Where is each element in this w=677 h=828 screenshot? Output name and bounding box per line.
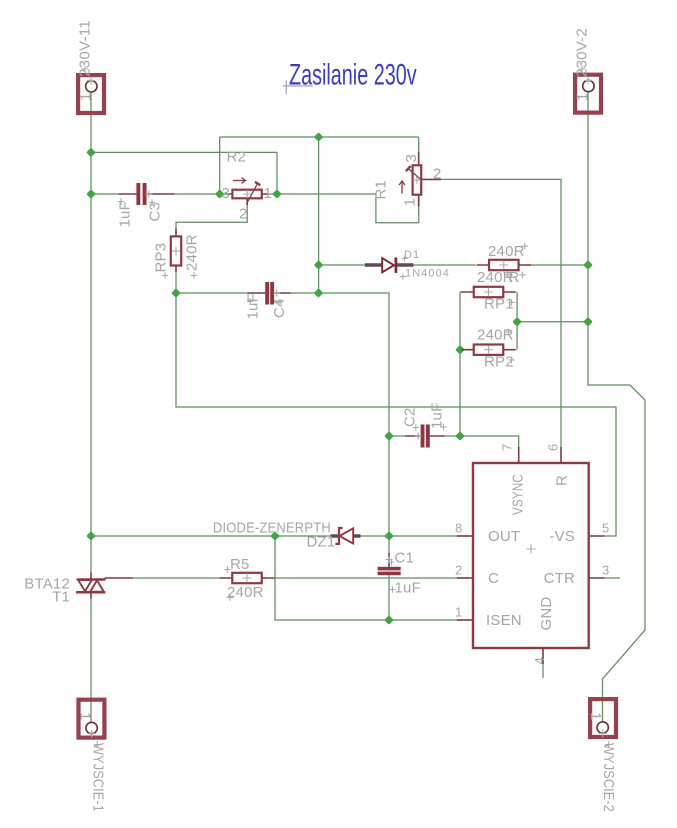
resistor R? 240R (D1 row): [477, 243, 532, 270]
wire wire C1 column below to ISEN row: [388, 575, 390, 620]
triac T1 BTA12: [24, 573, 133, 606]
wire wire RP1 left corner column: [459, 292, 461, 436]
resistor RP1 240R: [461, 269, 525, 313]
wire wire vertical drop R2 pin1 side: [276, 152, 278, 194]
svg-text:7: 7: [500, 444, 515, 451]
svg-text:ISEN: ISEN: [486, 612, 522, 629]
node C1 top / zener row: [384, 531, 394, 541]
svg-text:1: 1: [587, 712, 604, 721]
connector J3 WYJSCIE-1: [77, 700, 107, 812]
svg-text:2: 2: [239, 206, 248, 223]
wire wire C2 row right stub: [445, 435, 461, 437]
R1 adjust arrow: [399, 181, 405, 194]
svg-text:C1: C1: [395, 550, 415, 567]
R2 adjust arrow: [233, 178, 246, 184]
svg-text:4: 4: [532, 657, 547, 664]
wire wire RP3 bottom to C4 row junction: [175, 272, 177, 293]
node RP1-RP2 joint: [512, 317, 522, 327]
svg-text:WYJSCIE-1: WYJSCIE-1: [89, 743, 106, 812]
wire wire from C2 right junction to IC pin7: [460, 436, 519, 447]
wire wire IC pin5 up and along top row to left: [176, 293, 616, 536]
U1 pin 7 VSYNC stub: [518, 447, 520, 463]
U1 center origin cross: [527, 545, 536, 554]
node RP row / 230V-2 rail: [583, 317, 593, 327]
wire wire vertical drop to R2 pin3: [219, 137, 221, 194]
resistor R5 240R: [220, 556, 275, 601]
U1 pin 3 CTR stub: [589, 577, 605, 579]
op-amp / phase-control IC U1: [455, 444, 609, 665]
svg-text:C2: C2: [402, 407, 419, 427]
svg-text:Zasilanie 230v: Zasilanie 230v: [289, 59, 417, 92]
diode D1 1N4004: [365, 249, 450, 280]
svg-text:R: R: [509, 269, 520, 286]
wire wire 230V-2 rail down then jog right and down to WYJSCIE-2: [588, 92, 645, 722]
svg-text:1N4004: 1N4004: [405, 268, 450, 280]
wire wire IC pin3 stub: [605, 577, 620, 579]
svg-text:1uF: 1uF: [117, 201, 134, 227]
svg-text:1uF: 1uF: [245, 293, 262, 319]
node C4 row right: [314, 288, 324, 298]
svg-text:3: 3: [602, 563, 609, 578]
U1 pin number 7: [500, 444, 515, 451]
wire wire D1 row middle segment: [413, 264, 475, 266]
svg-text:1: 1: [455, 605, 462, 620]
svg-text:1: 1: [78, 92, 95, 101]
connector J1 230V-11: [77, 20, 105, 113]
svg-text:DZ1: DZ1: [307, 534, 336, 551]
svg-text:240R: 240R: [227, 584, 264, 601]
svg-text:OUT: OUT: [488, 528, 520, 545]
R1 name label: [373, 180, 390, 200]
title text "Zasilanie 230v": [289, 59, 417, 92]
resistor RP3 240R: [153, 229, 201, 279]
wire wire C3 row right segment: [174, 193, 227, 195]
svg-text:D1: D1: [404, 249, 420, 261]
resistor RP2 240R: [461, 327, 516, 371]
U1 pin 1 ISEN stub: [457, 619, 473, 621]
wire wire from zener row down to ISEN row: [275, 536, 457, 620]
U1 pin number 4: [532, 657, 547, 664]
R2 wiper slot: [247, 184, 258, 205]
wire wire C2 row left stub: [389, 435, 405, 437]
svg-text:8: 8: [455, 521, 462, 536]
wire wire R1 pin3 drop: [418, 137, 420, 152]
potentiometer R1: [373, 152, 442, 207]
value label 240R: [184, 234, 201, 271]
U1 pin number 6: [546, 444, 561, 451]
svg-text:1: 1: [402, 198, 419, 207]
U1 pin 8 OUT stub: [457, 535, 473, 537]
node top row / drop: [314, 132, 324, 142]
svg-text:-VS: -VS: [549, 528, 575, 545]
wire wire zener row to C1 column and IC pin8: [361, 535, 458, 537]
wire wire C4 row left segment: [176, 292, 248, 294]
node zener row / drop to ISEN: [270, 531, 280, 541]
svg-text:1: 1: [575, 92, 592, 101]
node C1 bottom / ISEN row: [384, 615, 394, 625]
svg-text:6: 6: [546, 444, 561, 451]
svg-text:C: C: [488, 570, 499, 587]
U1 label VSYNC: [510, 474, 527, 515]
svg-text:RP3: RP3: [153, 243, 170, 273]
wire wire top row above R2 to R1 pin3: [220, 136, 419, 138]
capacitor C2: [402, 403, 447, 448]
svg-text:2: 2: [433, 166, 442, 183]
node D1 row left: [314, 260, 324, 270]
title origin cross: [283, 80, 313, 94]
wire wire R5 to IC pin C row: [274, 577, 458, 579]
svg-text:2: 2: [455, 563, 462, 578]
wire wire gate row from triac to R5: [133, 577, 221, 579]
svg-text:3: 3: [221, 185, 230, 202]
connector J4 WYJSCIE-2: [587, 699, 617, 812]
wire wire RP1 right down to RP2 right: [516, 292, 518, 350]
R1 wiper slot: [408, 169, 422, 181]
wire wire RP1 left short: [460, 291, 462, 293]
svg-text:R2: R2: [227, 149, 247, 166]
svg-text:1: 1: [77, 712, 94, 721]
svg-text:CTR: CTR: [544, 570, 575, 587]
svg-text:C3: C3: [147, 202, 164, 222]
wire wire left rail below triac to WYJSCIE-1: [90, 598, 92, 722]
svg-text:240R: 240R: [184, 234, 201, 271]
node R2 pin3: [215, 189, 225, 199]
wire wire D1 row left segment: [319, 264, 365, 266]
svg-text:T1: T1: [52, 589, 70, 606]
potentiometer R2: [221, 149, 272, 223]
node left rail / R2 loop: [86, 148, 96, 158]
svg-text:1: 1: [264, 185, 273, 202]
svg-text:RP2: RP2: [484, 354, 514, 371]
wire wire D1 row right segment to 230V-2 rail: [531, 264, 588, 266]
U1 label GND: [538, 597, 555, 631]
zener diode DZ1: [213, 520, 361, 551]
node left rail / C3 row: [86, 189, 96, 199]
node D1 row / 230V-2 rail: [583, 260, 593, 270]
svg-text:RP1: RP1: [484, 296, 514, 313]
svg-text:5: 5: [602, 521, 609, 536]
svg-text:240R: 240R: [488, 243, 525, 260]
wire wire vertical from top row junction to D1 row and C4 row: [318, 137, 320, 293]
wire wire R2 wiper pin2 down-left to RP3: [176, 205, 247, 229]
wire wire C3 row left segment: [91, 193, 119, 195]
svg-text:1uF: 1uF: [395, 580, 421, 597]
U1 pin 4 GND stub: [542, 648, 544, 664]
node C4 row left / RP3: [171, 288, 181, 298]
wire wire C4 row right segment to corner down to C2 row: [291, 293, 389, 436]
wire wire IC pin4 stub: [542, 664, 544, 678]
U1 pin 6 R stub: [560, 447, 562, 463]
wire wire R2 pin1 to right jog down to R1 pin1: [268, 194, 419, 223]
wire wire C1 column above: [388, 436, 390, 553]
svg-text:GND: GND: [538, 597, 555, 631]
svg-text:R: R: [554, 475, 571, 486]
node C2 right: [455, 431, 465, 441]
T1 gate lead: [105, 578, 133, 580]
wire wire row RP joint to 230V-2 rail: [517, 321, 588, 323]
wire wire row from left rail to R2 top loop: [91, 151, 277, 153]
node R2 pin1: [272, 189, 282, 199]
connector J2 230V-2: [574, 28, 602, 113]
R1 pin number 1: [402, 198, 419, 207]
svg-text:R5: R5: [230, 556, 250, 573]
wire wire zener row from left rail: [91, 535, 331, 537]
wire wire from connector 230V-11 down left rail: [90, 92, 92, 573]
svg-text:VSYNC: VSYNC: [510, 474, 527, 515]
wire wire R1 wiper pin2 row to IC pin6 column: [441, 179, 561, 447]
node C2 left: [384, 431, 394, 441]
U1 pin 2 C stub: [457, 577, 473, 579]
node RP2 left: [455, 345, 465, 355]
capacitor C3: [117, 183, 175, 228]
svg-text:3: 3: [403, 154, 420, 163]
svg-text:WYJSCIE-2: WYJSCIE-2: [600, 743, 617, 812]
capacitor C4: [245, 282, 291, 320]
U1 pin 5 -VS stub: [589, 535, 605, 537]
svg-text:R1: R1: [373, 180, 390, 200]
name label RP3: [153, 243, 170, 273]
capacitor C1: [378, 550, 421, 597]
node left rail / zener row: [86, 531, 96, 541]
R1 pin number 3: [403, 154, 420, 163]
U1 label R: [554, 475, 571, 486]
